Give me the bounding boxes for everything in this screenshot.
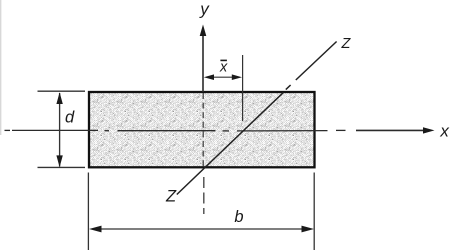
Z axis diagonal <box>177 42 337 195</box>
x-bar tick line <box>242 55 244 121</box>
x-bar overline <box>220 59 227 61</box>
dimension b <box>88 173 314 250</box>
d arrowhead up <box>56 92 62 104</box>
d top extension line <box>38 90 86 92</box>
d bottom extension line <box>38 166 86 168</box>
svg-text:d: d <box>65 108 75 126</box>
x-axis centerline <box>5 129 426 132</box>
y-axis <box>200 25 207 215</box>
x-bar dimension <box>207 55 243 121</box>
svg-text:x: x <box>439 121 449 140</box>
svg-text:Z: Z <box>340 36 351 52</box>
b right extension line <box>313 173 315 250</box>
b dimension shaft <box>98 228 305 230</box>
y-axis arrowhead <box>200 25 207 37</box>
y-axis dashed through section <box>202 93 204 168</box>
svg-text:y: y <box>199 0 210 19</box>
d arrow shaft <box>59 93 61 167</box>
b arrowhead left <box>89 226 102 233</box>
y-axis shaft above section <box>202 33 204 92</box>
y-axis dashed below section <box>203 177 205 214</box>
x-bar arrow shaft <box>207 76 239 78</box>
dimension d <box>38 91 86 167</box>
svg-text:x: x <box>219 59 228 75</box>
x-axis arrowhead <box>423 127 435 133</box>
b arrowhead right <box>302 226 315 233</box>
scan artifact: faint left edge band <box>0 0 2 135</box>
x-bar arrowhead right <box>232 74 242 80</box>
svg-text:b: b <box>234 208 243 226</box>
x-bar arrowhead left <box>204 74 214 80</box>
b left extension line <box>87 173 89 250</box>
svg-text:Z: Z <box>165 188 177 206</box>
d arrowhead down <box>56 155 62 167</box>
rectangle section (stippled) <box>89 92 315 167</box>
